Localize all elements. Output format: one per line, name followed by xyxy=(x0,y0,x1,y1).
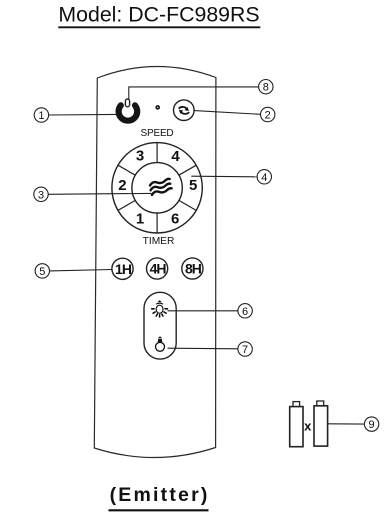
light-off icon (plain bulb) xyxy=(156,337,165,351)
speed dial outer circle xyxy=(112,143,202,233)
svg-text:2: 2 xyxy=(265,110,271,122)
svg-text:(Emitter): (Emitter) xyxy=(110,484,210,506)
svg-text:1: 1 xyxy=(136,211,144,228)
svg-text:5: 5 xyxy=(39,266,45,278)
timer button 8H xyxy=(182,258,203,279)
callout circle 4 xyxy=(257,170,271,184)
light-on icon (bulb with rays) xyxy=(152,300,168,317)
battery 2 xyxy=(314,401,328,446)
svg-text:6: 6 xyxy=(171,211,179,228)
svg-text:2: 2 xyxy=(118,177,126,194)
dial numbers xyxy=(118,148,197,228)
remote body outline xyxy=(94,66,216,457)
callout line 8 (elbow) xyxy=(129,87,259,100)
svg-text:7: 7 xyxy=(242,344,248,356)
callout line 3 xyxy=(48,192,151,195)
svg-text:4: 4 xyxy=(171,148,180,165)
(Emitter) caption xyxy=(109,484,210,511)
callout circle 6 xyxy=(238,304,252,318)
svg-text:6: 6 xyxy=(242,306,248,318)
svg-text:9: 9 xyxy=(369,419,375,431)
LED indicator dot xyxy=(156,106,159,109)
svg-text:4: 4 xyxy=(261,172,267,184)
light buttons pill xyxy=(144,292,176,359)
svg-text:TIMER: TIMER xyxy=(143,236,175,247)
battery 1 xyxy=(290,402,303,447)
callout line 2 xyxy=(194,111,260,115)
timer button 4H xyxy=(147,258,168,279)
svg-text:1: 1 xyxy=(38,110,44,122)
svg-text:5: 5 xyxy=(189,177,197,194)
svg-text:8H: 8H xyxy=(185,261,202,277)
svg-text:4H: 4H xyxy=(150,261,167,277)
speed dial inner circle xyxy=(132,163,182,213)
svg-text:3: 3 xyxy=(38,189,44,201)
svg-text:SPEED: SPEED xyxy=(141,128,174,139)
reverse icon arrows xyxy=(179,107,190,114)
callout circle 5 xyxy=(35,264,49,278)
power button bar pill xyxy=(125,99,129,107)
callout circle 8 xyxy=(259,80,273,94)
dial divider lines xyxy=(118,143,196,233)
reverse button circle xyxy=(174,100,195,121)
svg-text:Model: DC-FC989RS: Model: DC-FC989RS xyxy=(58,3,259,27)
callout line 7 xyxy=(168,347,238,350)
callout line 9 xyxy=(328,423,365,425)
breeze icon in dial center xyxy=(149,179,172,195)
callout line 6 xyxy=(168,310,238,312)
svg-text:1H: 1H xyxy=(115,261,132,277)
callout circle 7 xyxy=(238,342,252,356)
callout line 5 xyxy=(50,270,112,271)
callout circle 9 xyxy=(364,417,378,431)
callout circle 3 xyxy=(34,187,48,201)
callout circle 1 xyxy=(34,108,48,122)
callout line 4 xyxy=(191,175,257,178)
title Model: DC-FC989RS xyxy=(58,3,260,28)
svg-text:3: 3 xyxy=(136,148,144,165)
svg-text:8: 8 xyxy=(263,82,269,94)
svg-text:x: x xyxy=(304,418,312,433)
callout circle 2 xyxy=(261,107,275,121)
power button ring xyxy=(119,105,138,120)
callout line 1 xyxy=(49,113,117,116)
timer button 1H xyxy=(112,258,133,279)
